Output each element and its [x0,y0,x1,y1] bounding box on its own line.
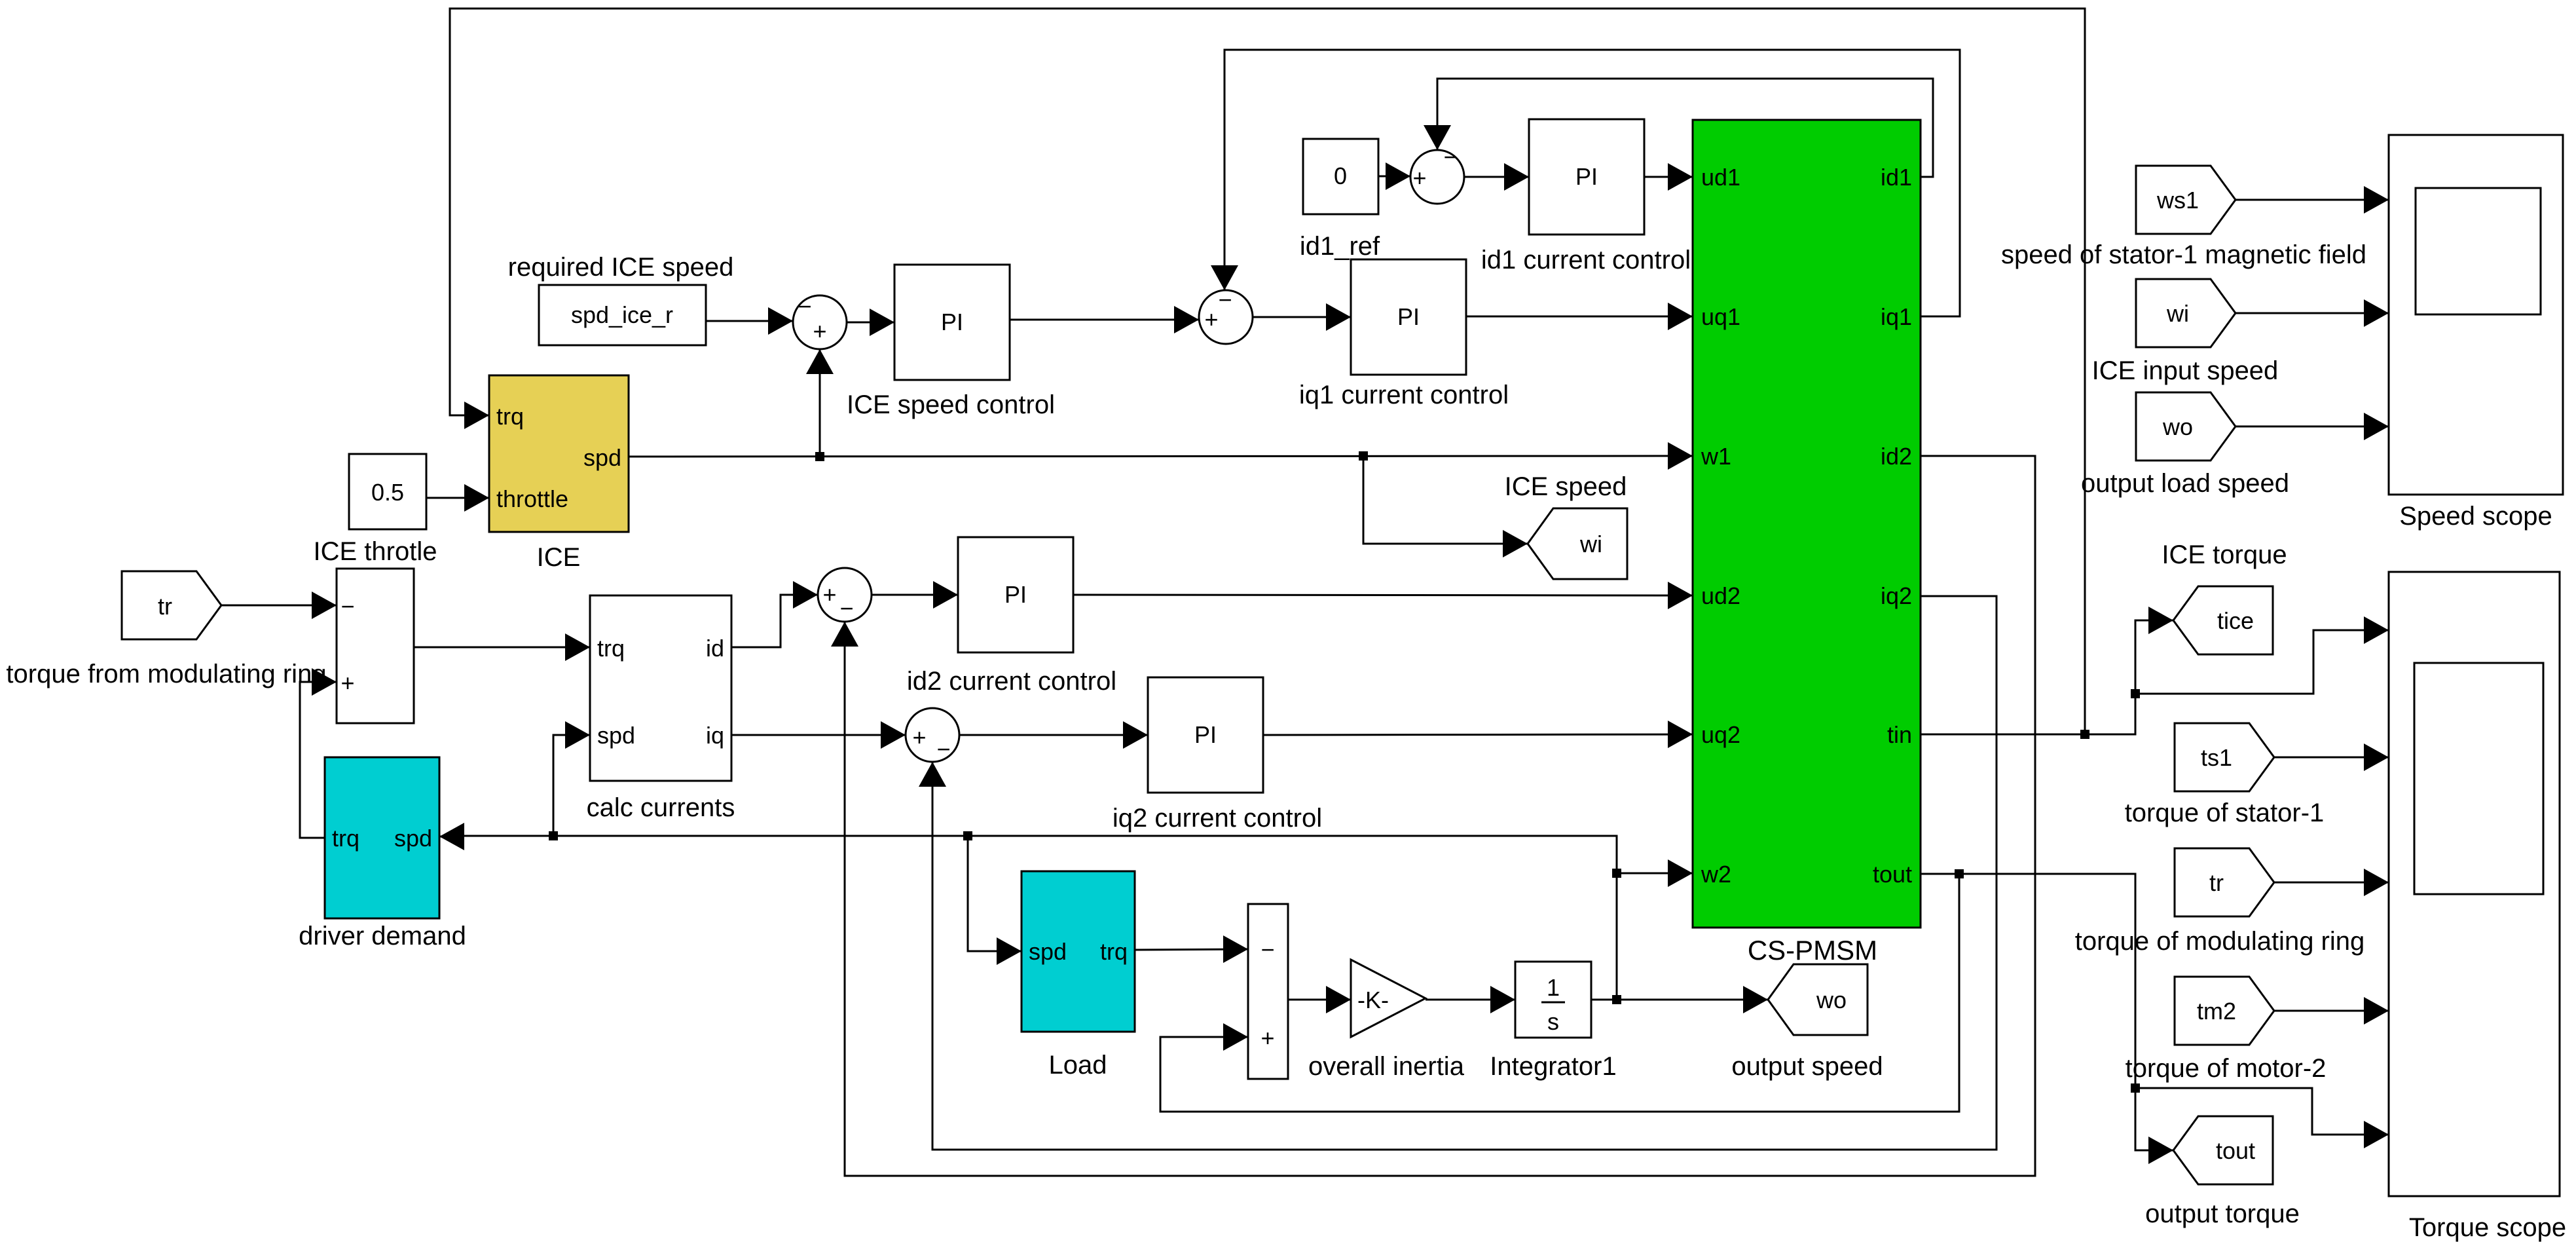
svg-text:tout: tout [2216,1137,2255,1164]
svg-text:Integrator1: Integrator1 [1490,1052,1616,1081]
svg-text:w1: w1 [1701,443,1731,470]
block: constant spd_ice_r [539,285,706,345]
svg-text:tin: tin [1887,721,1912,748]
svg-text:ud2: ud2 [1701,582,1740,609]
svg-text:1: 1 [1547,974,1560,1001]
svg-text:iq2: iq2 [1881,582,1912,609]
block: source tag tm2 [2175,977,2274,1045]
sum: iq1 current error sum [1199,290,1253,344]
svg-text:iq1: iq1 [1881,303,1912,330]
wire: branch up to calc currents spd [553,735,590,836]
svg-text:0: 0 [1334,162,1347,189]
wire: tin branch to Torque scope input 1 [2135,630,2389,694]
wire: branch into w2 port [1617,873,1693,875]
svg-text:ts1: ts1 [2201,744,2232,771]
svg-text:throttle: throttle [496,485,568,512]
wire: Load trq to Load sum - input [1135,949,1248,950]
svg-text:+: + [1412,164,1426,191]
block: id2 current control PI [958,537,1073,652]
wire: Load sum to overall inertia gain [1288,999,1351,1001]
svg-text:ICE throtle: ICE throtle [314,537,437,566]
svg-text:ud1: ud1 [1701,164,1740,191]
block: overall inertia gain -K- [1351,960,1426,1037]
wire: ICE speed sum to ICE speed PI [847,322,894,324]
wire: output speed up to w2 and main speed feedback line [464,836,1617,1000]
block: constant 0.5 [349,454,426,529]
svg-text:wi: wi [2166,300,2189,327]
svg-text:output load speed: output load speed [2081,469,2289,498]
block: source tag tr (torque of modulating ring) [2175,848,2274,916]
svg-text:−: − [798,293,811,320]
svg-text:wi: wi [1579,531,1602,557]
wire: tout feedback down/left to Load sum + input [1160,874,1959,1112]
svg-text:torque of modulating ring: torque of modulating ring [2075,927,2365,956]
wire: tm2 tag to Torque scope [2274,1010,2389,1012]
wire: iq1 PI to uq1 port [1466,316,1693,318]
svg-text:trq: trq [332,825,359,852]
block: Speed scope [2389,135,2563,495]
svg-text:iq1 current control: iq1 current control [1299,381,1509,409]
wire: branch down to wi goto tag (ICE speed) [1363,456,1528,544]
svg-text:trq: trq [597,635,625,662]
svg-text:calc currents: calc currents [587,793,735,822]
svg-text:+: + [1204,306,1218,333]
svg-text:overall inertia: overall inertia [1308,1052,1465,1081]
node: tin junction feeding top feedback loop [2080,730,2089,739]
svg-text:−: − [839,595,853,622]
svg-text:w2: w2 [1701,861,1731,888]
svg-text:PI: PI [1004,581,1027,608]
wire: id2 feedback loop to id2 sum [845,456,2035,1176]
svg-text:+: + [813,318,826,345]
svg-text:output speed: output speed [1731,1052,1883,1081]
svg-text:PI: PI [1194,721,1217,748]
svg-text:0.5: 0.5 [371,479,404,506]
svg-text:spd: spd [583,444,621,471]
svg-text:speed of stator-1 magnetic fie: speed of stator-1 magnetic field [2001,240,2366,269]
block: goto tag tout (output torque) [2173,1116,2273,1184]
wire: tr tag to Torque scope [2274,882,2389,884]
svg-text:+: + [912,724,926,751]
wire: id1 sum to id1 PI [1464,176,1529,178]
wire: overall inertia gain to Integrator1 [1426,999,1515,1001]
wire: driver demand trq to ICE throtle sum + input [300,682,337,838]
svg-text:s: s [1547,1008,1559,1035]
svg-text:uq1: uq1 [1701,303,1740,330]
block: iq1 current control PI [1351,259,1466,375]
wire: ICE speed PI to iq1 sum [1010,319,1199,321]
node: speed line branch to Load spd [963,831,972,840]
block: driver demand subsystem (cyan) [325,757,439,918]
wire: tout branch to Torque scope input 5 [2135,1088,2389,1135]
svg-text:trq: trq [496,403,524,430]
svg-text:torque of motor-2: torque of motor-2 [2125,1054,2327,1083]
svg-text:PI: PI [1397,303,1420,330]
svg-text:−: − [340,593,354,620]
svg-text:wo: wo [1816,987,1847,1013]
block: goto tag wo (output speed) [1768,964,1868,1035]
svg-text:−: − [1260,936,1274,963]
svg-text:uq2: uq2 [1701,721,1740,748]
wire: wo tag to Speed scope [2235,426,2389,428]
svg-text:Torque scope: Torque scope [2409,1213,2566,1242]
block: ICE subsystem (yellow) [489,375,629,532]
wire: tout output rightwards [1921,874,2135,1088]
svg-text:id: id [706,635,724,662]
wire: tin output to tice goto tag [1921,620,2173,734]
node: tout junction near port [1955,869,1964,878]
svg-text:+: + [340,669,354,696]
svg-text:PI: PI [941,309,963,335]
svg-text:iq2 current control: iq2 current control [1113,804,1322,833]
wire: id1 PI to ud1 port [1644,176,1693,178]
block: Torque scope [2389,572,2560,1196]
block: goto tag wi (ICE speed) [1528,508,1627,579]
svg-text:spd_ice_r: spd_ice_r [571,301,673,328]
wire: ICE throtle sum to calc currents trq [414,647,590,649]
wire: constant 0.5 to ICE throttle input [426,497,489,499]
wire: ICE spd output to w1 port [629,456,1693,457]
node: tin branch to Torque scope [2131,689,2140,698]
wire: Integrator1 output to output speed goto tag [1591,999,1768,1001]
svg-text:id1 current control: id1 current control [1481,246,1691,274]
block: source tag ts1 [2175,723,2274,791]
svg-text:spd: spd [597,722,635,749]
svg-text:tice: tice [2217,607,2254,634]
block: source tag tr (torque from modulating ring) [122,571,221,639]
svg-text:-K-: -K- [1357,987,1389,1013]
block: Load subsystem (cyan) [1021,871,1135,1032]
wire: tin feedback up/over to ICE trq input [450,9,2085,734]
svg-text:tr: tr [2209,869,2224,896]
wire: spd_ice_r to ICE speed sum [706,320,793,322]
svg-text:spd: spd [1029,938,1067,965]
wire: id2 PI to ud2 port [1073,595,1693,595]
node: w2 branch junction [1612,869,1621,878]
svg-text:trq: trq [1100,938,1128,965]
svg-text:tm2: tm2 [2197,998,2236,1025]
svg-text:torque from modulating ring: torque from modulating ring [6,660,326,688]
block: id1 current control PI [1529,119,1644,235]
block: constant 0 (id1_ref) [1303,139,1378,214]
svg-text:iq: iq [706,722,724,749]
wire: tout branch to output torque goto tag [2135,1088,2173,1150]
wire: iq1 feedback loop to iq1 sum [1224,50,1960,316]
svg-text:spd: spd [394,825,432,852]
wire: constant 0 to id1 sum [1378,176,1410,178]
block: source tag wi (ICE input speed) [2136,279,2236,347]
svg-text:torque of stator-1: torque of stator-1 [2125,799,2325,827]
svg-text:−: − [1443,143,1457,170]
svg-text:+: + [822,581,836,608]
wire: branch down to Load spd [968,836,1021,951]
wire: tr tag to ICE throtle sum - input [221,605,337,607]
wire: wi tag to Speed scope [2235,312,2389,314]
block: ICE speed control PI [894,265,1010,380]
svg-text:Load: Load [1049,1051,1107,1080]
sum: id1 current error sum [1410,150,1464,204]
sum: ICE speed control error sum [793,295,847,349]
sum: id2 current error sum [818,568,872,622]
block: goto tag tice (ICE torque) [2173,586,2273,654]
svg-text:output torque: output torque [2145,1199,2300,1228]
wire: iq2 sum to iq2 PI [959,734,1148,736]
svg-text:ws1: ws1 [2156,187,2199,214]
svg-text:driver demand: driver demand [299,922,466,950]
svg-text:−: − [1218,286,1232,313]
svg-text:wo: wo [2162,413,2193,440]
block: source tag ws1 [2136,166,2236,234]
block: source tag wo (output load speed) [2136,392,2236,461]
svg-text:tr: tr [158,593,172,620]
block: Integrator1 (1/s) [1515,962,1591,1038]
wire: ws1 tag to Speed scope [2235,199,2389,201]
wire: iq2 PI to uq2 port [1263,734,1693,735]
svg-text:id1_ref: id1_ref [1300,232,1380,261]
wire: calc currents iq to iq2 sum [731,734,906,736]
wire: ts1 tag to Torque scope [2274,757,2389,759]
svg-text:+: + [1260,1025,1274,1051]
svg-text:CS-PMSM: CS-PMSM [1748,935,1877,966]
svg-text:Speed scope: Speed scope [2399,502,2552,531]
wire: iq1 sum to iq1 PI [1253,316,1351,318]
node: tout branch junction lower right [2131,1083,2140,1093]
sum: iq2 current error sum [906,708,959,762]
svg-text:id1: id1 [1881,164,1912,191]
node: ICE spd branch to speed control sum [815,452,824,461]
sum: ICE throtle rectangular sum [337,569,414,723]
block: CS-PMSM subsystem (green) [1693,120,1921,928]
svg-text:ICE: ICE [537,543,581,572]
sum: Load rectangular sum [1248,904,1288,1079]
svg-text:id2 current control: id2 current control [907,667,1116,696]
svg-text:required ICE speed: required ICE speed [508,253,734,282]
svg-text:PI: PI [1575,163,1598,190]
svg-text:ICE torque: ICE torque [2162,540,2287,569]
svg-text:−: − [936,736,950,762]
wire: iq2 feedback loop to iq2 sum [932,596,1996,1150]
block: calc currents subsystem [590,595,731,781]
svg-text:ICE speed control: ICE speed control [847,390,1055,419]
svg-text:ICE input speed: ICE input speed [2092,356,2279,385]
svg-text:id2: id2 [1881,443,1912,470]
block: iq2 current control PI [1148,677,1263,793]
wire: id1 feedback loop to id1 sum [1437,79,1933,177]
wire: calc currents id to id2 sum [731,595,818,647]
svg-text:tout: tout [1873,861,1912,888]
node: w1 wire branch to ICE speed goto [1359,451,1368,461]
node: integrator output junction [1612,995,1621,1004]
wire: ICE spd up into ICE speed sum + input [819,349,821,457]
wire: id2 sum to id2 PI [872,594,958,596]
node: speed line branch to calc currents spd [549,831,558,840]
svg-text:ICE speed: ICE speed [1505,472,1627,501]
